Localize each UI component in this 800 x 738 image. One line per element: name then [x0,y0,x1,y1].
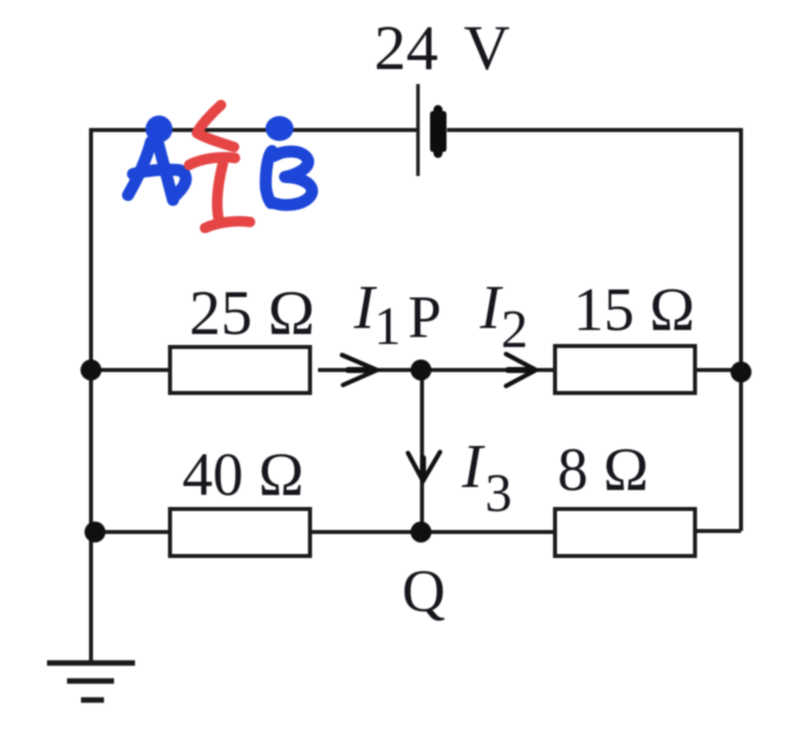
svg-text:Q: Q [402,558,445,624]
resistor R3 40 ohm box [170,509,310,556]
svg-text:40 Ω: 40 Ω [182,442,304,509]
ground symbol [47,663,135,700]
wire top horizontal right (battery to right rail) [447,128,743,132]
wire elbow: 8 ohm to right rail [695,529,741,533]
wire stub: 15 ohm to right rail [695,368,741,372]
annotation blue letter B [266,151,312,205]
battery V1 long plate (positive) [416,84,420,176]
wire vertical node P to node Q [420,370,424,532]
resistor R2 15 ohm box [555,346,695,393]
wire middle branch: 25 ohm to node P [318,368,421,372]
annotation red less-than mark [197,105,234,147]
wire top horizontal left (from left rail to battery) [91,128,417,132]
svg-text:2: 2 [501,299,528,359]
svg-text:24 V: 24 V [374,12,510,83]
wire middle branch: node P to 15 ohm [421,368,555,372]
wire bottom branch: 40 ohm to node Q [310,530,421,534]
resistor R1 25 ohm box [170,347,310,393]
annotation blue letter A [128,139,186,200]
node Q junction dot [411,522,432,543]
svg-text:3: 3 [485,463,512,523]
current arrow I1 (chevron pointing right) [342,355,377,385]
node junction dot right-middle [731,362,752,383]
node junction dot left-middle [81,360,102,381]
annotation blue dot A [146,116,173,143]
svg-text:1: 1 [374,296,401,356]
svg-text:25 Ω: 25 Ω [189,278,315,348]
annotation red letter I [189,157,250,228]
node P junction dot [411,360,432,381]
annotation blue dot B [266,116,294,141]
current arrow I3 (chevron pointing down) [408,452,440,481]
node junction dot left-bottom [85,522,106,543]
wire bottom branch: left rail to 40 ohm [91,530,170,534]
wire bottom branch: node Q to 8 ohm [421,530,555,534]
wire left rail vertical [89,128,93,661]
svg-text:15 Ω: 15 Ω [573,277,695,344]
wire middle branch: left rail to 25 ohm [91,368,170,372]
svg-text:P: P [408,284,441,350]
svg-text:8 Ω: 8 Ω [557,437,648,504]
wire right rail vertical [739,128,743,531]
current arrow I2 (chevron pointing right) [506,354,536,386]
svg-text:I: I [461,433,486,501]
resistor R4 8 ohm box [555,509,695,556]
battery V1 short thick plate (negative) [430,111,447,152]
